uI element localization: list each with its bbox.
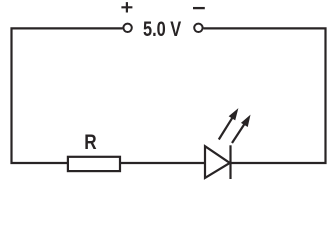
wire: LED cathode, right side, up to battery - terminal: [204, 28, 326, 163]
LED D1 cathode bar: [229, 145, 231, 179]
battery - terminal (open circle): [194, 24, 202, 32]
svg-text:R: R: [84, 131, 96, 154]
battery + terminal (open circle): [123, 24, 131, 32]
svg-text:5.0 V: 5.0 V: [143, 18, 181, 41]
- polarity mark: [193, 7, 205, 9]
wire: top-left from battery + terminal, down left side, to resistor: [12, 28, 123, 163]
+ polarity mark: [121, 2, 132, 12]
wire: resistor to LED anode: [120, 162, 204, 164]
resistor R (box): [68, 157, 120, 171]
LED D1 triangle (anode): [205, 146, 230, 178]
LED emission arrow 2: [232, 116, 250, 143]
LED emission arrow 1: [219, 110, 238, 140]
